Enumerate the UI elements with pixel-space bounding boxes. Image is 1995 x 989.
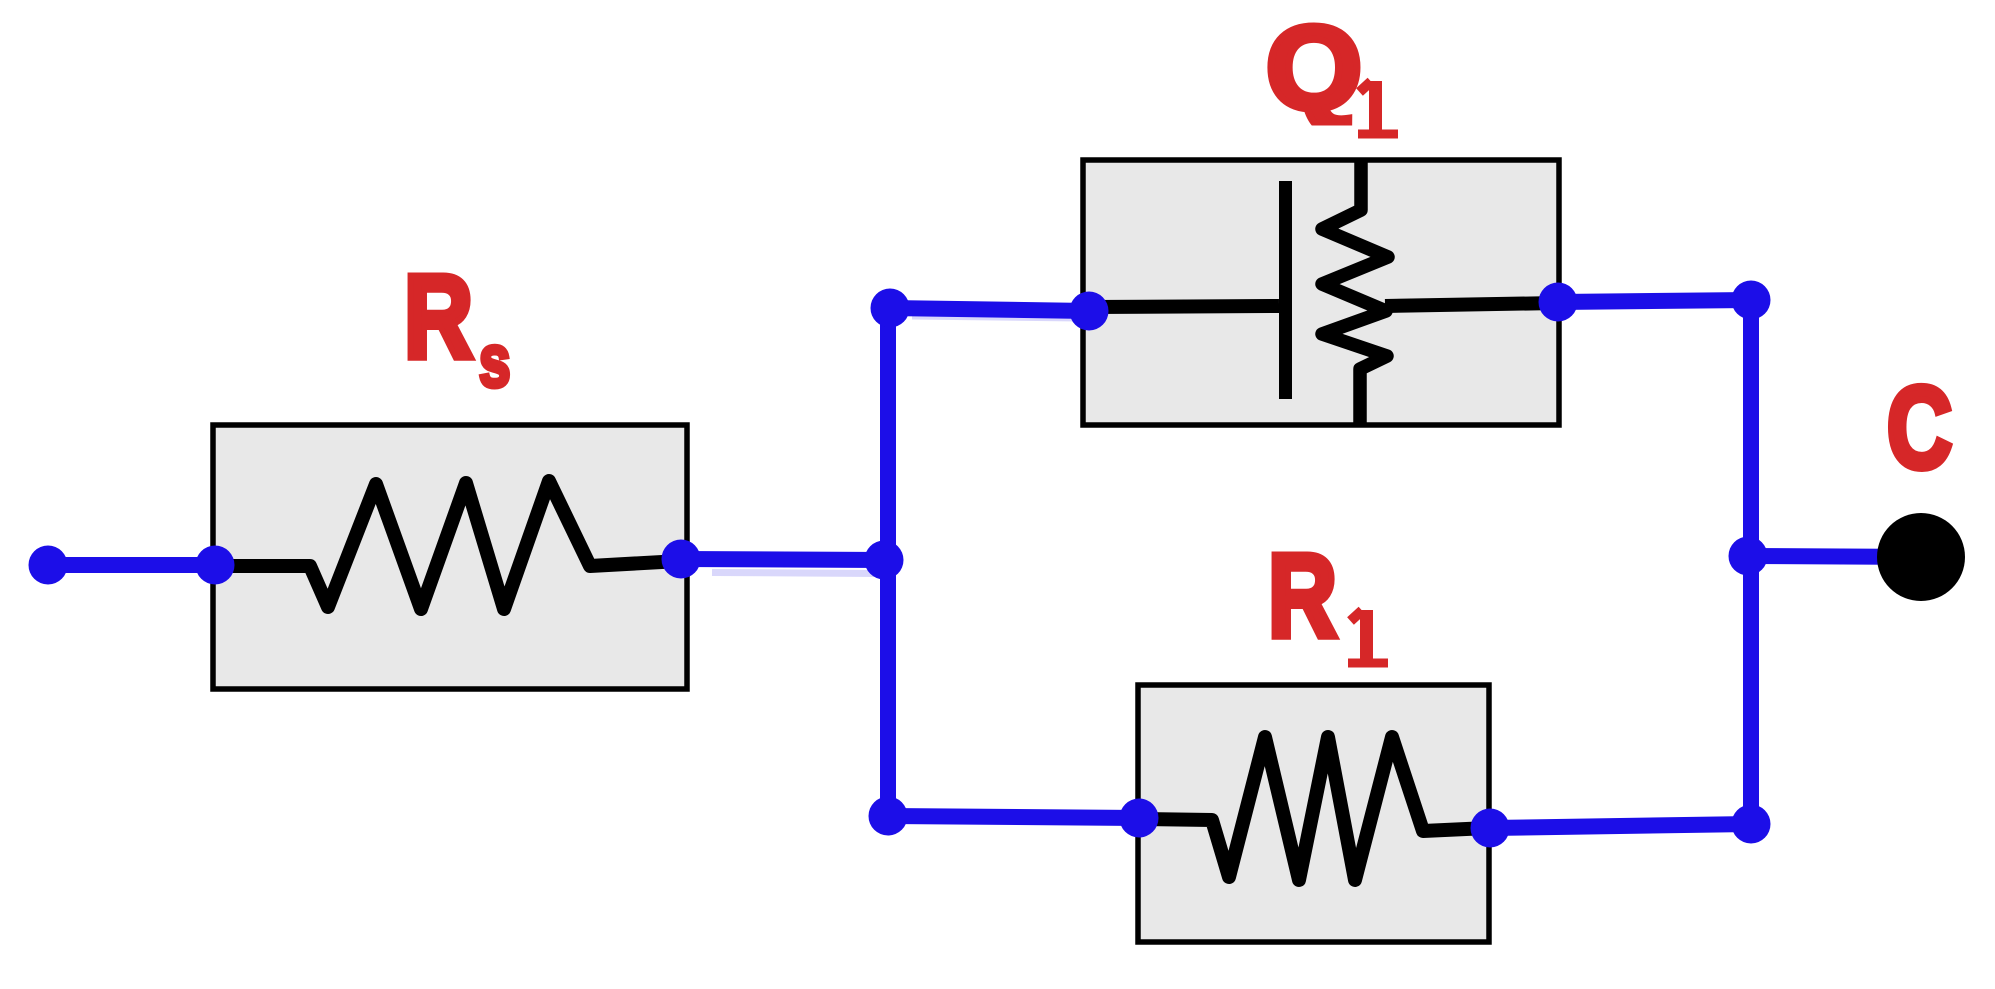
node mid right (1729, 537, 1768, 576)
node input terminal (29, 546, 68, 585)
CPE Q1 box (1083, 160, 1559, 425)
Q1 capacitor plate (1279, 181, 1292, 399)
terminal C black dot (1877, 513, 1965, 601)
wire vertical branch split (880, 306, 896, 818)
node R1 right (1471, 809, 1510, 848)
resistor R1 box (1138, 685, 1489, 942)
label Rs (404, 252, 511, 403)
wire to Q1 input (890, 308, 1089, 311)
wire right vertical bus (1743, 300, 1759, 824)
wire to output terminal C (1748, 556, 1921, 557)
svg-text:C: C (1887, 363, 1952, 493)
svg-text:s: s (479, 320, 511, 403)
svg-text:R: R (1268, 531, 1337, 663)
wire from R1 output (1490, 824, 1751, 828)
label Q1 (1266, 3, 1398, 135)
resistor Rs zigzag (215, 481, 680, 609)
wire ghost under Q1 feed (912, 316, 1078, 318)
Q1 vertical resistor zigzag (1322, 160, 1388, 424)
wire ghost under junction feed (712, 573, 876, 574)
label R1 (1268, 531, 1388, 664)
node bottom corner (869, 797, 908, 836)
node Q1 right (1539, 283, 1578, 322)
Q1 right lead (1385, 303, 1557, 306)
node junction (865, 541, 904, 580)
wire from Rs to junction node (681, 559, 884, 560)
node Q1 left (1070, 292, 1109, 331)
node top right corner (1732, 281, 1771, 320)
Q1 left lead (1090, 306, 1279, 307)
node R1 left (1120, 799, 1159, 838)
node Rs right (662, 540, 701, 579)
svg-text:R: R (404, 252, 473, 384)
wire from input terminal to Rs (48, 557, 215, 573)
node bottom right corner (1732, 805, 1771, 844)
resistor R1 zigzag (1140, 737, 1488, 880)
resistor Rs box (213, 425, 687, 689)
node top corner (871, 289, 910, 328)
node Rs left (196, 546, 235, 585)
wire from Q1 output (1558, 300, 1751, 302)
wire to R1 input (888, 816, 1139, 818)
svg-text:Q: Q (1266, 3, 1362, 135)
